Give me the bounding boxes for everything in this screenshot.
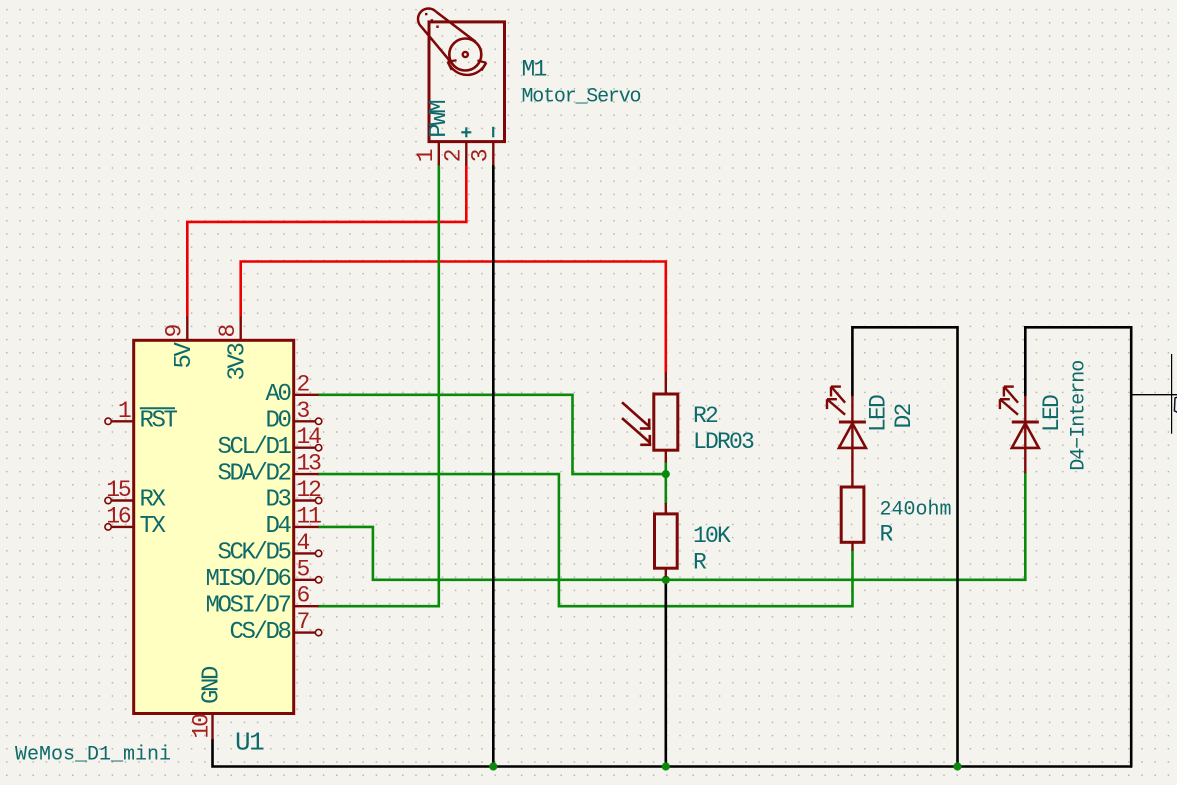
svg-text:12: 12 — [297, 477, 322, 503]
svg-text:GND: GND — [199, 666, 226, 704]
servo pin stubs — [439, 142, 494, 166]
wire: D4-Interno LED cathode loop to GND rail (black) — [1025, 327, 1131, 766]
rotation arrow arc — [448, 63, 485, 75]
svg-text:1: 1 — [413, 149, 439, 162]
svg-text:SCL/D1: SCL/D1 — [217, 434, 291, 461]
wire: servo pin3 (-) to GND rail (black) — [492, 165, 495, 766]
svg-text:SCK/D5: SCK/D5 — [217, 540, 290, 567]
svg-text:9: 9 — [162, 325, 188, 338]
svg-text:8: 8 — [215, 325, 241, 338]
svg-text:D3: D3 — [265, 487, 290, 514]
svg-text:1: 1 — [118, 398, 131, 424]
U1 top pin stubs — [187, 317, 240, 740]
pin name + — [461, 127, 471, 137]
wire: 10K bottom junction to GND rail (black) — [664, 580, 667, 767]
photoresistor R2 body — [654, 394, 678, 450]
svg-text:13: 13 — [297, 451, 322, 477]
svg-text:10K: 10K — [693, 523, 731, 549]
svg-text:R2: R2 — [693, 403, 718, 429]
svg-text:2: 2 — [441, 149, 467, 162]
servo horn arm — [418, 9, 476, 66]
svg-text:4: 4 — [297, 530, 310, 556]
svg-text:3V3: 3V3 — [225, 343, 252, 380]
svg-text:WeMos_D1_mini: WeMos_D1_mini — [15, 744, 171, 767]
resistor 240ohm body — [841, 487, 864, 542]
R2 light arrows — [622, 402, 651, 446]
svg-text:3: 3 — [297, 398, 310, 424]
svg-text:D0: D0 — [265, 408, 290, 435]
240ohm bottom stub — [851, 542, 853, 550]
svg-text:14: 14 — [297, 424, 322, 450]
svg-text:RST: RST — [140, 408, 178, 435]
U1 left pin stubs — [105, 418, 134, 530]
svg-text:A0: A0 — [265, 381, 290, 408]
svg-text:D4−Interno: D4−Interno — [1068, 361, 1091, 471]
node: junction servo minus / GND rail — [489, 762, 497, 770]
cursor crosshair — [1131, 354, 1177, 434]
svg-text:SDA/D2: SDA/D2 — [217, 460, 290, 487]
svg-text:LED: LED — [866, 395, 892, 432]
wire: A0 to LDR/10K junction (green) — [319, 395, 666, 474]
svg-text:TX: TX — [140, 513, 166, 540]
svg-text:15: 15 — [106, 477, 131, 503]
node: junction LDR/10K/A0 — [662, 470, 670, 478]
wire: D4 to junction and D4-Interno LED (green) — [319, 473, 1026, 580]
svg-text:D4: D4 — [265, 513, 291, 540]
svg-text:7: 7 — [297, 609, 309, 635]
svg-text:RX: RX — [140, 487, 166, 514]
U1 body — [134, 340, 294, 713]
svg-text:Motor_Servo: Motor_Servo — [522, 86, 641, 109]
right-side pin numbers — [297, 371, 322, 635]
node: junction D2 loop / GND rail — [953, 762, 961, 770]
U1 right pin stubs — [294, 395, 322, 636]
svg-text:240ohm: 240ohm — [880, 499, 952, 522]
servo output circle — [449, 39, 481, 71]
svg-text:6: 6 — [297, 583, 310, 609]
svg-text:R: R — [693, 550, 707, 576]
svg-text:5V: 5V — [171, 341, 198, 368]
svg-text:D2: D2 — [891, 403, 917, 428]
pin name - — [492, 127, 494, 138]
svg-text:11: 11 — [297, 503, 322, 529]
svg-text:2: 2 — [297, 371, 310, 397]
right-side pin names — [205, 381, 291, 646]
wire: LDR bottom to junction (green) — [664, 462, 667, 504]
svg-text:LDR03: LDR03 — [693, 429, 754, 455]
svg-text:PWM: PWM — [426, 101, 453, 138]
svg-text:U1: U1 — [235, 728, 264, 758]
servo horn dots — [425, 13, 439, 28]
svg-text:R: R — [880, 522, 894, 548]
resistor 10K body — [655, 514, 678, 568]
wire: MOSI/D7 to servo PWM pin1 (green) — [319, 165, 439, 606]
svg-text:LED: LED — [1039, 395, 1065, 432]
svg-text:MISO/D6: MISO/D6 — [205, 566, 290, 593]
wire: U1 3V3 to LDR R2 top (red) — [241, 262, 666, 373]
motor M1 body — [418, 9, 504, 142]
node: junction 10K bottom / D4 wire — [662, 576, 670, 584]
R2 pin stubs — [665, 373, 667, 514]
svg-text:CS/D8: CS/D8 — [229, 619, 290, 646]
svg-text:10: 10 — [188, 714, 214, 739]
LED D4-Interno symbol — [1000, 387, 1039, 474]
wire: D2 LED cathode loop to GND rail (black) — [852, 327, 957, 766]
LED D2 symbol — [827, 387, 866, 487]
svg-text:3: 3 — [468, 149, 494, 162]
node: junction 10K branch / GND rail — [662, 762, 670, 770]
svg-text:5: 5 — [297, 556, 310, 582]
wire: servo pin2 (+) to U1 5V (red) — [187, 165, 466, 316]
wire: GND rail (black) — [213, 740, 1132, 767]
svg-text:16: 16 — [106, 503, 131, 529]
svg-text:MOSI/D7: MOSI/D7 — [205, 592, 290, 619]
svg-text:M1: M1 — [522, 57, 547, 83]
wire: SDA/D2 to 240ohm bottom (green) — [319, 474, 853, 606]
10K bottom stub — [665, 568, 667, 577]
